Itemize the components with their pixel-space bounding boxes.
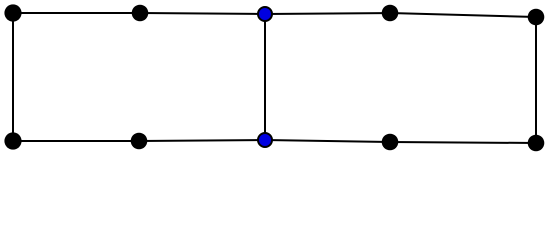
wire bottom edge I-J [390, 142, 536, 143]
wire top edge B-C [140, 13, 265, 14]
node E top-right [528, 9, 545, 26]
wire bottom edge G-H [139, 140, 265, 141]
wire right vertical E-J [535, 17, 537, 143]
wire middle vertical C-H [264, 14, 266, 140]
wire top edge D-E [390, 13, 536, 17]
wire left vertical A-F [12, 13, 14, 141]
node H bottom-center blue [258, 133, 272, 147]
node F bottom-left [4, 132, 21, 149]
wire top edge A-B [13, 12, 140, 14]
node I bottom-middle-right [382, 134, 399, 151]
node D top-middle-right [382, 5, 399, 22]
node B top-middle-left [132, 5, 149, 22]
wire bottom edge H-I [265, 140, 390, 142]
node G bottom-middle-left [131, 133, 148, 150]
wire top edge C-D [265, 13, 390, 14]
node A top-left [4, 4, 21, 21]
node J bottom-right [528, 135, 545, 152]
node C top-center blue [258, 7, 272, 21]
wire bottom edge F-G [13, 140, 139, 142]
